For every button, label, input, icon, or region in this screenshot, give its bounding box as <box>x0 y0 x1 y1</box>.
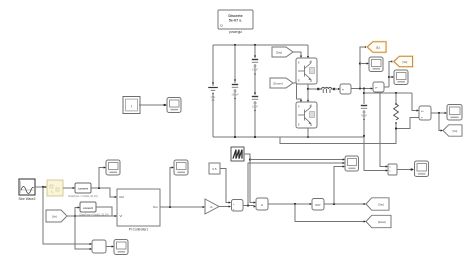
gain K <box>205 199 219 214</box>
scope ScopeA <box>106 160 120 175</box>
wire NOT out <box>324 203 364 205</box>
inductor L1 <box>317 87 335 93</box>
capacitor C4 <box>361 106 368 121</box>
svg-text:v-: v- <box>421 117 423 120</box>
data type conversion convert2 <box>79 202 108 216</box>
svg-text:Discrete: Discrete <box>228 14 242 18</box>
wire IL riser <box>360 47 366 89</box>
wire sum out <box>243 206 254 207</box>
node sawtooth scope tap <box>249 158 251 160</box>
goto tag [Vm] <box>443 125 462 136</box>
wire sawtooth to relop <box>244 154 254 203</box>
wire C3 branch lower <box>254 101 256 137</box>
svg-text:t: t <box>131 104 132 108</box>
node C4 rail <box>363 135 365 137</box>
svg-text:Sine Wave2: Sine Wave2 <box>18 197 35 201</box>
wire yellow to convert1 <box>63 187 73 189</box>
node sum riser <box>247 204 249 206</box>
wire scopeB riser <box>170 168 172 208</box>
wire Vo scope feed <box>389 76 392 78</box>
wire clock to scope <box>139 104 165 106</box>
node scopeA riser <box>98 187 100 189</box>
sine wave source <box>18 179 35 201</box>
rate transition block (yellow) <box>47 180 63 196</box>
resistor R load <box>394 104 399 120</box>
node VM2 out <box>438 112 440 114</box>
wire Vo to PI <box>67 215 115 217</box>
sum block <box>232 200 244 212</box>
goto tag [Down] <box>366 215 391 227</box>
wire sum riser to scope <box>248 163 343 206</box>
wire sawtooth to scope <box>250 159 343 161</box>
node VM2 minus rail <box>395 127 397 129</box>
scope Scope4 (clock) <box>167 98 181 113</box>
node bottom C3 <box>254 136 256 138</box>
relational operator <box>256 198 268 210</box>
scope Scope3 <box>447 105 462 121</box>
wire Down gate <box>293 83 301 101</box>
from tag [Sw] <box>272 47 293 57</box>
wire VM2 out <box>431 112 445 114</box>
scope ScopeVoIL <box>415 161 429 177</box>
from tag [Down] <box>270 78 293 88</box>
constant 0.5 <box>209 163 220 174</box>
wire resistor top <box>395 93 397 104</box>
from tag [Vo] feedback <box>46 210 67 222</box>
wire Q2 emitter to rail <box>307 128 309 137</box>
clock block <box>123 97 140 114</box>
SECTION: control circuit <box>18 147 428 255</box>
wire relop out <box>268 203 310 205</box>
wire battery branch upper <box>212 45 214 86</box>
node midpoint <box>307 88 309 90</box>
svg-text:[Down]: [Down] <box>273 82 283 86</box>
svg-text:[IL]: [IL] <box>376 46 380 50</box>
wire C1 branch upper <box>234 45 236 83</box>
wire sine to mux2 <box>43 187 90 244</box>
wire VM1 output <box>384 86 389 88</box>
node NOT branch <box>333 203 335 205</box>
scope Scope1 (IL) <box>369 57 383 72</box>
scope ScopeC <box>114 240 128 255</box>
wire relop to Down tag <box>295 204 364 222</box>
wire bottom rail <box>213 136 364 138</box>
goto tag [Vo] (highlighted) <box>394 56 413 66</box>
scope ScopePWM <box>345 156 359 171</box>
wire scopeA riser <box>99 168 104 189</box>
logical NOT <box>312 199 324 211</box>
svg-text:v+: v+ <box>375 87 378 90</box>
mux2 bottom-left <box>92 240 106 253</box>
svg-text:Vf: Vf <box>120 214 123 218</box>
svg-text:[Vo]: [Vo] <box>52 215 57 219</box>
node convert2 riser <box>74 215 76 217</box>
goto tag [IL] (highlighted) <box>367 42 386 52</box>
wire rail to Q1 collector <box>307 45 309 57</box>
wire Vo riser <box>389 62 392 88</box>
scope ScopeB <box>174 160 188 175</box>
svg-text:PI Controller1: PI Controller1 <box>129 228 149 232</box>
node IL scope tap <box>359 62 361 64</box>
node sine branch <box>42 186 44 188</box>
svg-text:[Down]: [Down] <box>378 221 386 224</box>
svg-text:5e-07 s.: 5e-07 s. <box>229 19 242 23</box>
svg-text:Out: Out <box>153 205 158 209</box>
capacitor C1 <box>231 79 239 99</box>
wire VM2 minus <box>396 118 419 129</box>
battery Vdc <box>208 82 218 102</box>
svg-text:[Vo]: [Vo] <box>453 129 458 133</box>
svg-text:-K-: -K- <box>210 205 214 209</box>
wire IL scope feed <box>360 63 367 65</box>
svg-text:Ref: Ref <box>120 195 125 199</box>
node resistor upper <box>395 103 397 105</box>
powergui block <box>218 10 253 34</box>
wire Q1 emitter to midpoint <box>307 84 309 89</box>
wire VM1 bottom to mux <box>380 92 386 167</box>
current measurement CM1 <box>340 84 351 94</box>
wire CM1 output <box>351 88 371 90</box>
svg-text:DataType = fixdt(1,32,24): DataType = fixdt(1,32,24) <box>68 194 97 198</box>
repeating sequence (sawtooth) <box>231 147 244 161</box>
wire sine out <box>35 186 45 188</box>
wire C1 branch lower <box>234 89 236 137</box>
node line2 <box>363 92 365 94</box>
wire return jog <box>280 124 396 144</box>
node relop branch <box>294 203 296 205</box>
voltage measurement VM2 <box>419 106 431 120</box>
wire Sw gate <box>293 52 301 57</box>
wire NOT riser to scope <box>334 167 343 205</box>
wire line2 to load <box>364 92 412 94</box>
wire mux out <box>397 169 412 171</box>
wire C4 to rail <box>363 110 365 136</box>
wire C4 node down to mux <box>364 136 386 171</box>
node Vo scope tap <box>388 76 390 78</box>
PI controller subsystem <box>117 189 160 232</box>
wire inductor to CM <box>336 88 339 90</box>
svg-text:≥: ≥ <box>261 203 263 207</box>
wire parallel to VM2 <box>412 93 417 111</box>
transistor Q2 (IGBT lower) <box>296 102 317 128</box>
wire convert2 out <box>96 207 112 216</box>
wire C2-C3 mid <box>254 64 256 95</box>
wire C4 drop <box>363 89 365 105</box>
wire gain to sum <box>219 206 229 208</box>
svg-text:convert: convert <box>78 187 88 191</box>
capacitor C2 <box>252 55 259 75</box>
node scopeB riser <box>169 206 171 208</box>
wire battery branch lower <box>212 93 214 137</box>
svg-text:[Sw]: [Sw] <box>378 203 383 207</box>
wire midpoint to inductor <box>308 88 319 90</box>
mux Vo/IL <box>388 164 397 175</box>
wire PI out <box>160 206 203 208</box>
node resistor lower <box>395 122 397 124</box>
transistor Q1 (IGBT upper) <box>296 58 317 84</box>
svg-text:[Sw]: [Sw] <box>276 51 282 55</box>
node top rail / C1 <box>234 44 236 46</box>
node top rail / C2 <box>254 44 256 46</box>
node load resistor top <box>395 92 397 94</box>
svg-text:NOT: NOT <box>315 203 321 207</box>
capacitor C3 <box>252 92 259 111</box>
wire constant to sum <box>220 169 229 203</box>
wire Vo to mux2 <box>75 216 90 249</box>
svg-text:[Vo]: [Vo] <box>403 60 408 64</box>
wire convert2 riser <box>75 208 78 217</box>
svg-text:0.5: 0.5 <box>212 167 217 171</box>
SECTION: power circuit <box>123 10 462 172</box>
wire mux2 out <box>106 246 112 248</box>
svg-text:convert: convert <box>83 206 93 210</box>
goto tag [Sw] <box>366 198 389 210</box>
scope Scope2 (Vo) <box>394 70 408 85</box>
wire convert1 out <box>91 188 115 197</box>
wire C2 branch upper <box>254 45 256 58</box>
svg-text:DataType = fixdt(1,32,24): DataType = fixdt(1,32,24) <box>79 212 108 216</box>
wire VM2 to tag <box>439 113 441 131</box>
wire top rail <box>213 44 308 46</box>
wire midpoint to Q2 collector <box>307 89 309 101</box>
node IL riser <box>359 87 361 89</box>
voltage measurement VM1 <box>373 82 384 92</box>
data type conversion convert1 <box>68 183 97 198</box>
node bottom C1 <box>234 136 236 138</box>
node cap C4 tap <box>363 87 365 89</box>
node Q2 bottom <box>307 136 309 138</box>
svg-text:powergui: powergui <box>229 30 242 34</box>
svg-text:v+: v+ <box>421 110 424 113</box>
